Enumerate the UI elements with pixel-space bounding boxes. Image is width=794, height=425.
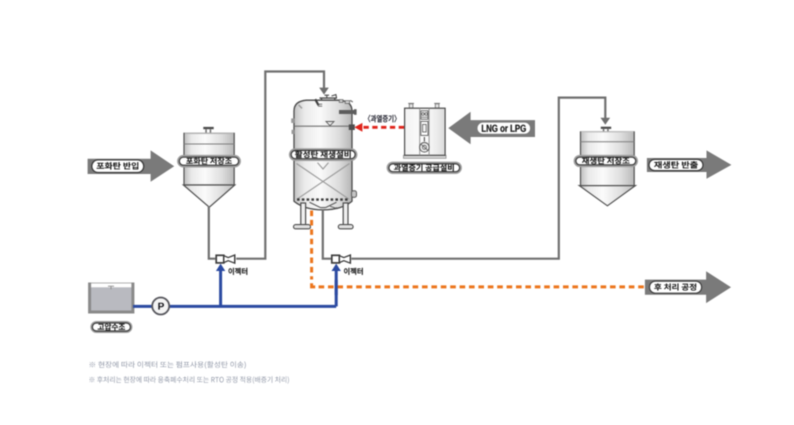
vapour line: orange dashed to post-treatment	[310, 211, 313, 280]
steam line: red dashed (과열증기) into V1	[349, 123, 404, 132]
label pill: 포화탄 저장조	[177, 155, 241, 168]
water line: tank to pump to ejectors (blue)	[133, 264, 341, 307]
arrow: LNG or LPG supply	[448, 112, 535, 145]
pump P1	[152, 298, 169, 315]
arrow: regenerated carbon out (재생탄 반출)	[647, 150, 732, 178]
water tank W1 (고압수조)	[89, 283, 134, 313]
label: 이젝터 (left)	[229, 268, 248, 275]
manhole stub lower right	[352, 191, 357, 198]
label pill: 고압수조	[90, 321, 132, 333]
label: (과열증기)	[368, 115, 397, 123]
label pill: 과열증기 공급설비	[387, 162, 462, 174]
ejector E1	[216, 255, 235, 263]
label pill: 활성탄 재생설비	[289, 148, 358, 161]
label: 이젝터 (right)	[344, 268, 363, 275]
water line: blue over orange crossing	[335, 280, 338, 295]
arrow: saturated carbon intake (포화탄 반입)	[88, 150, 175, 181]
pipe: E2 outlet loop up into regenerated tank T2	[351, 98, 605, 259]
pipe: T1 drain down to ejector E1	[209, 206, 216, 259]
ejector E2	[332, 255, 351, 263]
steam generator B1 (과열증기 공급설비)	[404, 103, 447, 158]
footnote line 1	[90, 361, 246, 368]
internal bracing	[297, 164, 350, 200]
support plate (dotted)	[297, 198, 350, 200]
vessel V1: activated carbon regenerator (활성탄 재생설비)	[291, 95, 356, 229]
pipe: V1 bottom drain to ejector E2	[323, 209, 331, 259]
arrow: post treatment (후 처리 공정)	[645, 271, 731, 303]
label pill: 재생탄 저장조	[574, 155, 638, 167]
pipe: E1 outlet loop up and into regenerator top	[236, 72, 324, 259]
legs and feet	[301, 203, 306, 225]
footnote line 2	[90, 376, 289, 383]
tank T2: regenerated carbon storage (재생탄 저장조)	[579, 127, 635, 206]
bottom outlet cone	[310, 202, 337, 207]
tank T1: saturated carbon storage (포화탄 저장조)	[183, 127, 234, 207]
nozzle: steam inlet stub (right, dark)	[339, 110, 356, 114]
